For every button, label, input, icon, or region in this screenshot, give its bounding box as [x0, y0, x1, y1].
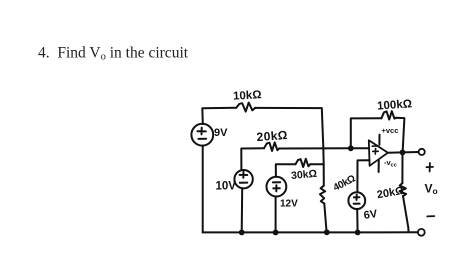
wire: right vertical down from 10k corner to 30k node [322, 108, 324, 164]
op-amp +vcc stub [378, 135, 380, 145]
svg-text:40kΩ: 40kΩ [332, 173, 358, 193]
op-amp U1 triangle [369, 140, 388, 166]
op-amp -vcc stub [378, 160, 380, 172]
wire: 12V top elbow to 30k [276, 164, 296, 177]
wire: 20k to op-amp junction [279, 147, 351, 149]
resistor R 10k zigzag [236, 103, 255, 112]
V3 minus sign (top) [273, 181, 280, 183]
svg-text:+vcc: +vcc [382, 126, 399, 135]
V1 minus sign [198, 138, 206, 140]
terminal: output bottom open circle [418, 229, 425, 236]
wire: output node down to 20k [401, 152, 403, 183]
svg-text:10V: 10V [216, 181, 237, 193]
wire: feedback left vertical up from junction [351, 118, 382, 148]
svg-text:12V: 12V [280, 199, 298, 210]
node: rail dot 12V [273, 230, 279, 236]
op-amp minus input mark [372, 145, 377, 147]
V2 minus sign [240, 182, 248, 184]
svg-text:6V: 6V [363, 208, 379, 222]
svg-text:20kΩ: 20kΩ [256, 128, 288, 144]
voltage source V2 10V circle [234, 170, 252, 188]
V1 plus sign [197, 128, 205, 135]
resistor R 20k output vertical zigzag [400, 183, 407, 196]
wire: 30k to vertical [310, 163, 323, 165]
voltage source V4 6V circle [348, 192, 365, 209]
resistor R 30k zigzag [296, 159, 311, 167]
wire: junction to op-amp minus input [351, 147, 369, 149]
wire: bottom rail [203, 231, 418, 233]
node: output junction dot [400, 150, 406, 156]
svg-text:9V: 9V [214, 127, 228, 139]
label plus polarity [427, 163, 434, 172]
wire: 10k to right corner [255, 107, 322, 109]
svg-text:100kΩ: 100kΩ [377, 98, 413, 112]
op-amp plus input mark [373, 149, 379, 155]
wire: plus input to 6V [357, 160, 369, 192]
resistor R 40k vertical zigzag [320, 186, 325, 204]
V4 plus sign [354, 195, 360, 200]
wire: 100k to right corner and down to output node [396, 118, 404, 153]
wire: 20k branch vertical + left segment [241, 148, 264, 170]
node: rail dot 6V [355, 230, 361, 236]
terminal: output top open circle [419, 149, 425, 155]
voltage source V3 12V circle [267, 177, 287, 197]
V2 plus sign [240, 172, 248, 178]
wire: 20k bottom to rail [403, 196, 409, 231]
voltage source V1 9V circle [191, 124, 213, 146]
node: rail dot 10V [239, 230, 245, 236]
V4 minus sign [354, 203, 360, 205]
label minus polarity [427, 215, 434, 217]
resistor R 100k zigzag [381, 111, 396, 119]
svg-text:20kΩ: 20kΩ [376, 185, 405, 202]
node: junction dot 20k/op-amp [348, 145, 354, 151]
wire: output node to top terminal [403, 151, 419, 153]
svg-text:30kΩ: 30kΩ [291, 168, 318, 182]
svg-text:Vo: Vo [425, 182, 438, 197]
V3 plus sign (bottom) [273, 185, 280, 191]
wire: vertical 30k node to 40k top [323, 164, 325, 185]
wire: 9V bottom to rail [202, 146, 204, 233]
node: rail dot 40k [324, 229, 330, 235]
wire: 12V bottom to rail [275, 197, 277, 233]
wire: op-amp output to node [388, 151, 403, 153]
wire: 6V bottom to rail [356, 209, 358, 232]
svg-text:10kΩ: 10kΩ [233, 89, 262, 102]
svg-text:4. Find Vo in the circuit: 4. Find Vo in the circuit [38, 45, 189, 63]
wire: 40k bottom to rail [324, 204, 326, 233]
resistor R 20k zigzag [264, 142, 279, 151]
wire: 10V bottom to rail [241, 188, 244, 232]
wire: top-left from 9V up and right to 10k [202, 108, 236, 124]
svg-text:-vcc: -vcc [384, 158, 397, 169]
